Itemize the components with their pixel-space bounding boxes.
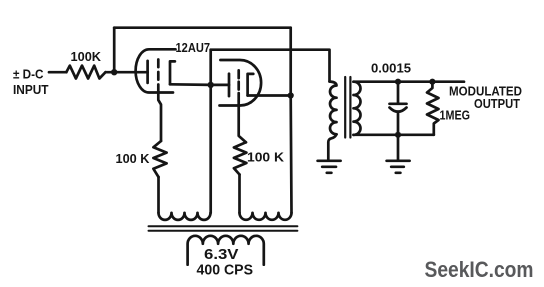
wire V2 grid down with jog [239,101,246,142]
transistor V2 grid (dashed) [237,70,240,101]
label 100 K (R2 value) [116,151,151,166]
svg-text:± D-C: ± D-C [13,66,44,81]
ground G2 [387,161,410,173]
op-amp V2 triode envelope [220,60,262,106]
node A junction input/grid [111,69,117,75]
wire V2 plate to node C [248,94,291,97]
ground G1 [318,161,341,173]
wire V1a grid down with jog [158,92,161,141]
wire node C down to heater coil [289,96,292,213]
label 100 K (R3 value) [247,149,285,164]
label MODULATED OUTPUT [449,84,522,111]
wire V1a plate to node B [170,83,211,86]
op-amp V1a triode envelope [136,49,176,92]
svg-text:100 K: 100 K [116,151,151,166]
svg-text:100K: 100K [71,49,102,64]
inductor T1 secondary winding [354,82,361,135]
wire R1 to tube V1 cathode [106,71,148,74]
node E resistor top [429,79,435,85]
transformer T1 core [345,77,350,138]
label 0.0015 (C1 value) [371,61,411,76]
transistor V2 cathode bar [228,74,231,96]
wire node A up [113,28,116,72]
svg-text:400 CPS: 400 CPS [197,263,254,279]
transistor V2 plate bracket [248,74,254,96]
transistor V1a grid (dashed) [157,60,160,93]
capacitor C1 0.0015 [390,82,407,135]
wire secondary bottom rail [354,133,434,136]
wire T1 primary bottom to ground [328,134,336,159]
svg-text:INPUT: INPUT [13,82,49,97]
label 12AU7 [176,40,211,55]
svg-text:12AU7: 12AU7 [176,40,211,55]
node DC input label [13,66,49,97]
wire node F to ground [397,135,400,160]
wire vertical through node B (rail to heater coil) [209,50,212,213]
resistor R4 1 MEG [427,82,439,135]
svg-text:OUTPUT: OUTPUT [474,96,520,111]
wire R2 to heater coil [157,177,160,213]
transistor V1a cathode bar [146,61,149,83]
wire top rail down right side [289,28,292,96]
node C plate junction right [288,92,294,98]
node B plate junction [208,82,214,88]
inductor T2 secondary right winding [240,213,292,220]
wire input to R1 [49,71,66,74]
label SeekIC.com watermark [425,257,534,282]
inductor T2 primary winding 6.3V [188,236,264,265]
node F cap bottom [395,132,401,138]
inductor T1 primary winding [330,82,337,135]
label 400 CPS [197,263,254,279]
wire secondary top rail [354,80,465,83]
inductor T2 secondary left winding [159,213,211,220]
label 100K (R1 value) [71,49,102,64]
svg-text:6.3V: 6.3V [204,247,239,263]
transistor V1a plate bracket [170,61,175,84]
transformer T2 core [149,226,298,231]
resistor R3 100K (right) [234,142,247,174]
svg-text:SeekIC.com: SeekIC.com [425,257,534,282]
resistor R2 100K (left) [153,141,166,177]
label 1MEG (R4 value) [440,107,471,122]
wire rail y50 to output transformer [211,50,330,82]
svg-text:100 K: 100 K [247,149,285,164]
resistor R1 100K (input) [66,66,105,79]
svg-text:1MEG: 1MEG [440,107,471,122]
label 6.3V [204,247,239,263]
svg-text:0.0015: 0.0015 [371,61,411,76]
wire node B to V2 cathode [211,84,229,87]
node D cap top [395,79,401,85]
wire R3 to heater coil [238,175,241,213]
wire top rail [114,26,291,29]
